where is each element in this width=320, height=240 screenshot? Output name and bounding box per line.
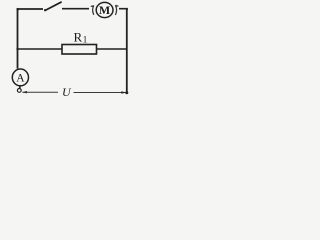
- node junction left: [16, 48, 18, 50]
- wire right vertical: [126, 9, 128, 94]
- label R1: [74, 30, 88, 45]
- switch: [44, 2, 61, 11]
- motor M: [91, 2, 119, 17]
- voltage U dimension arrow left: [22, 91, 58, 93]
- wire motor to top-right corner: [119, 9, 127, 10]
- wire top-left horizontal: [17, 8, 43, 10]
- wire switch to motor: [62, 8, 89, 10]
- terminal: [17, 89, 21, 93]
- wire resistor branch left: [18, 48, 63, 50]
- resistor R1: [62, 45, 97, 55]
- svg-text:A: A: [16, 72, 25, 84]
- ammeter A: [12, 69, 28, 86]
- svg-text:M: M: [99, 3, 110, 17]
- wire resistor branch right: [97, 48, 128, 50]
- voltage U dimension arrow right: [74, 91, 127, 93]
- node top-left corner: [16, 8, 19, 11]
- svg-text:R: R: [74, 30, 83, 45]
- wire left vertical: [17, 9, 19, 69]
- node junction bottom-right: [125, 91, 128, 94]
- wire ammeter to terminal: [19, 86, 21, 89]
- svg-text:U: U: [62, 85, 72, 99]
- svg-text:1: 1: [83, 35, 88, 45]
